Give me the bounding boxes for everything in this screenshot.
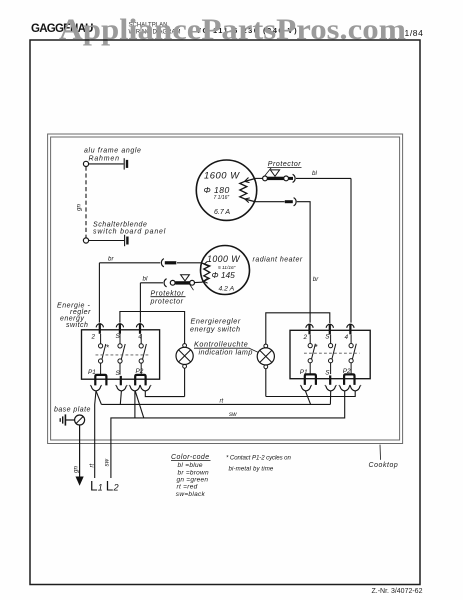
wire gn to ground arrow: [79, 425, 81, 477]
svg-text:Color-code: Color-code: [171, 454, 210, 461]
node switch board panel: [83, 238, 88, 243]
svg-text:7 1/16″: 7 1/16″: [214, 195, 230, 201]
S1 receptacle hook P2b: [140, 385, 151, 391]
svg-text:base plate: base plate: [54, 407, 91, 414]
svg-text:1600 W: 1600 W: [204, 169, 240, 180]
svg-text:S: S: [325, 334, 330, 341]
S1 receptacle hook P2a: [129, 385, 140, 391]
svg-text:Schalterblende: Schalterblende: [93, 222, 147, 229]
S2 receptacle hook P1: [300, 385, 311, 391]
svg-text:protector: protector: [150, 298, 184, 305]
resistor zigzag R2: [201, 263, 210, 282]
wire rt bus: [101, 403, 330, 405]
wire to switch panel ground: [89, 240, 124, 242]
svg-text:L: L: [106, 479, 114, 494]
svg-text:Rahmen: Rahmen: [89, 156, 120, 163]
S2 receptacle hook P2a: [339, 385, 350, 391]
svg-text:br: br: [313, 276, 319, 283]
inner frame (cooktop boundary, double line): [48, 134, 403, 444]
svg-text:Φ 180: Φ 180: [204, 185, 230, 195]
svg-text:4.2 A: 4.2 A: [219, 285, 235, 292]
svg-text:gn: gn: [73, 466, 80, 473]
svg-text:br: br: [108, 255, 114, 262]
wire gn dashed (frame angle to switch panel): [85, 167, 87, 238]
S2 contact 2-P1: [309, 335, 311, 344]
svg-text:L: L: [90, 479, 98, 494]
wire bl down to left switch 4: [139, 283, 141, 323]
wire L1 red: [95, 391, 96, 478]
svg-text:2: 2: [113, 483, 119, 493]
chassis ground switch panel: [124, 235, 126, 246]
indication lamp H2 (right): [257, 313, 330, 397]
svg-text:* Contact P1-2 cycles on: * Contact P1-2 cycles on: [226, 455, 291, 462]
S1 receptacle hook P1: [90, 385, 101, 391]
wire lamp H1 bottom: [184, 368, 186, 396]
wire P2a to sw bus (diagonal): [135, 391, 144, 418]
ground symbol base plate: [64, 414, 66, 425]
S1 plug terminal 4: [136, 324, 143, 328]
protector trip triangle: [270, 170, 279, 176]
svg-text:sw: sw: [229, 411, 237, 418]
svg-text:6.7 A: 6.7 A: [214, 209, 230, 216]
svg-text:1000 W: 1000 W: [207, 254, 240, 264]
S2 receptacle hook S: [325, 385, 336, 391]
connector arc (plug): [293, 174, 296, 182]
wire 1600W bottom: [255, 201, 285, 203]
svg-text:1: 1: [98, 483, 103, 493]
svg-text:rt: rt: [88, 463, 95, 467]
S1 contact 4-P2: [140, 334, 142, 344]
svg-text:alu frame angle: alu frame angle: [84, 148, 142, 155]
svg-text:sw=black: sw=black: [176, 491, 206, 498]
svg-text:br =brown: br =brown: [178, 470, 209, 477]
node alu frame angle: [83, 161, 88, 166]
S1 plug terminal S: [116, 324, 123, 328]
wire br vertical down to switch 2: [297, 202, 310, 323]
svg-text:bl: bl: [312, 170, 317, 177]
S2 receptacle hook P2b: [350, 385, 361, 391]
svg-text:rt: rt: [220, 397, 224, 404]
S2 P1 tab connector: [305, 374, 316, 385]
S1 P1 tab connector: [95, 375, 106, 386]
wire br from 1000W top-left: [177, 262, 201, 264]
svg-text:2: 2: [91, 334, 96, 341]
svg-text:switch: switch: [66, 322, 88, 329]
outer frame: [30, 40, 420, 585]
svg-text:bl =blue: bl =blue: [178, 462, 203, 469]
svg-text:gn: gn: [76, 204, 83, 211]
resistor zigzag R1: [240, 179, 255, 202]
svg-text:indication lamp: indication lamp: [199, 348, 253, 357]
svg-text:gn =green: gn =green: [177, 477, 209, 484]
heater element R2 1000W circle: [201, 246, 250, 295]
S2 S tab: [329, 375, 331, 384]
svg-text:energy switch: energy switch: [190, 325, 240, 334]
S1 contact S-S: [119, 334, 121, 344]
svg-text:1/84: 1/84: [405, 28, 424, 38]
ground arrow gn: [76, 477, 84, 486]
wire P2b up from lamp line: [145, 391, 184, 397]
svg-text:rt =red: rt =red: [177, 484, 198, 491]
svg-text:bl: bl: [143, 275, 148, 282]
wire S to rt bus: [120, 391, 121, 405]
svg-text:bi-metal by time: bi-metal by time: [229, 466, 274, 473]
protector F1 (1600W): [263, 176, 268, 181]
S2 plug terminal 4: [347, 324, 354, 328]
wire to frame angle ground: [89, 163, 124, 165]
S2 P2 tab connector: [344, 374, 354, 385]
wire S2 P2b to lamp line: [266, 391, 355, 397]
wire P1 to rt bus: [96, 391, 101, 405]
S2 plug terminal 2: [306, 324, 313, 328]
svg-text:4: 4: [345, 334, 349, 341]
S1 S tab: [120, 376, 122, 385]
svg-text:S: S: [116, 370, 121, 377]
indication lamp H1 (left): [120, 312, 193, 397]
svg-text:Φ 145: Φ 145: [212, 270, 236, 280]
svg-text:*: *: [106, 344, 110, 353]
S1 P2 tab connector: [135, 375, 145, 386]
S1 contact 2-P1: [100, 334, 102, 344]
screw symbol: [75, 415, 85, 425]
svg-text:Protector: Protector: [268, 161, 301, 168]
energy regulator switch S1 (left) body: [82, 330, 160, 379]
wire lamp H2 bottom: [265, 369, 267, 397]
wire sw bus: [111, 391, 345, 478]
svg-text:radiant heater: radiant heater: [253, 257, 303, 264]
wire bl vertical down to switch 4: [350, 178, 352, 322]
wire br down to left switch 2: [98, 263, 100, 323]
energy regulator switch S2 (right) body: [290, 330, 370, 378]
S2 plug terminal S: [326, 324, 333, 328]
svg-text:Z.-Nr. 3/4072-62: Z.-Nr. 3/4072-62: [372, 588, 423, 595]
wire S2 P1 to rt bus: [305, 391, 310, 405]
wire bl from 1000W bottom-left through Protektor: [195, 281, 203, 283]
wire S2 S to rt bus: [329, 391, 331, 405]
S1 plug terminal 2: [96, 324, 103, 328]
wire lamp H1 top to S1 terminal S: [120, 312, 185, 344]
svg-text:Protektor: Protektor: [151, 290, 185, 297]
wire bl to right: [296, 177, 351, 179]
leader to lamp H2: [250, 348, 259, 352]
svg-text:AppliancePartsPros.com: AppliancePartsPros.com: [59, 13, 406, 46]
S1 coupling dashed line: [96, 354, 149, 356]
heater element R1 1600W circle: [196, 160, 256, 220]
wire 1600W top to protector: [255, 177, 263, 179]
svg-text:*: *: [314, 343, 318, 352]
chassis ground alu frame: [123, 158, 125, 169]
S1 receptacle hook S: [116, 385, 127, 391]
svg-text:2: 2: [303, 334, 308, 341]
svg-text:switch board panel: switch board panel: [93, 229, 166, 236]
svg-text:sw: sw: [104, 458, 111, 466]
svg-text:Cooktop: Cooktop: [369, 462, 399, 469]
svg-text:S: S: [325, 369, 330, 376]
protektor trip triangle: [181, 275, 190, 281]
S2 contact S-S: [330, 335, 332, 344]
S2 contact 4-P2: [350, 335, 352, 344]
wire lamp H2 top to S2 terminal S: [266, 313, 330, 344]
S2 coupling dashed line: [304, 352, 360, 354]
wire P2a to sw bus (vertical): [134, 391, 136, 418]
